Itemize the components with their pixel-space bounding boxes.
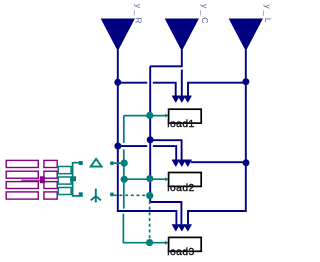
wire teal to load1 input — [124, 115, 166, 117]
star symbol bottom dot — [95, 200, 97, 202]
delta symbol — [91, 159, 102, 167]
wire teal to load2 input — [124, 178, 166, 180]
teal block 1 — [58, 167, 71, 174]
svg-text:load1: load1 — [167, 119, 194, 130]
wire teal control bus vertical middle segment — [123, 149, 125, 208]
teal block 3 — [58, 188, 71, 195]
small purple block 4 — [44, 192, 57, 199]
ramp block 4 — [6, 192, 38, 199]
wire node A down left rail to corner and right to load3 pin1 — [118, 82, 177, 224]
solid teal square on selector bus — [70, 176, 76, 181]
svg-text:y_L: y_L — [263, 4, 273, 24]
wire horizontal bus y=82.7 mid segment to load1 pin1 — [153, 83, 176, 96]
load1 plug arrows — [172, 96, 191, 102]
purple solid connector square — [40, 176, 45, 183]
node C junction dot — [242, 78, 249, 85]
wire horizontal bus y=82.7 left segment from node A — [118, 82, 148, 84]
wire teal control bus vertical upper segment — [123, 116, 125, 143]
wire node D to load2 pin2 — [150, 140, 181, 160]
input square of delta block — [79, 161, 83, 165]
thin purple wire into connector square — [21, 179, 40, 181]
teal junction dot on dashed wire — [146, 192, 153, 199]
teal junction dot on load3 wire — [146, 239, 153, 246]
node D junction dot — [147, 136, 154, 143]
svg-text:y_C: y_C — [200, 4, 210, 26]
wire horizontal bus y=82.7 right segment from node C to load1 pin3 — [188, 83, 246, 96]
load3 box — [169, 237, 202, 251]
input connector y_R — [102, 19, 135, 50]
teal junction dot on load1 wire — [146, 112, 153, 119]
node E junction dot — [243, 159, 250, 166]
teal block 2 — [58, 177, 71, 184]
wire mid rail x=150.2 from corner down to load3 pin2 — [150, 66, 181, 224]
arrow into load3 — [165, 241, 168, 245]
output square of delta block — [110, 161, 114, 165]
load3 plug arrows — [172, 225, 191, 231]
ramp block 1 — [6, 160, 38, 167]
node B junction dot — [114, 143, 121, 150]
wire dashed teal from star block output — [114, 194, 150, 196]
wire teal control bus vertical lower segment to load3 input — [123, 214, 165, 243]
load2 plug arrows — [172, 160, 191, 166]
selector left bus vertical with corners — [73, 163, 83, 196]
teal junction dot on bus at load2 branch — [121, 176, 128, 183]
wire load2 pin3 to node E — [191, 161, 246, 163]
small purple block 3 — [44, 182, 57, 189]
teal junction dot on bus at delta output — [121, 160, 128, 167]
arrow into load1 — [165, 114, 168, 118]
output square of star block — [110, 193, 114, 197]
star symbol — [91, 189, 101, 202]
svg-text:load2: load2 — [167, 183, 194, 194]
wire node B to load2 pin1 left segment — [118, 145, 148, 147]
ramp block 2 — [6, 171, 38, 178]
svg-text:load3: load3 — [167, 247, 194, 258]
load1 box — [169, 109, 202, 123]
input connector y_C — [166, 19, 199, 50]
input connector y_L — [230, 19, 263, 50]
small purple block 2 — [44, 171, 57, 178]
wire teal from delta block output to bus — [114, 162, 124, 164]
wire stem from input y_R down to node A — [117, 50, 119, 82]
node A junction dot — [114, 79, 121, 86]
wire stem from input y_C down to corner — [150, 50, 182, 66]
wire dashed teal vertical down to load3 node — [149, 195, 151, 242]
arrow into load2 — [165, 177, 168, 181]
input square of star block — [79, 192, 83, 196]
ramp block 3 — [6, 182, 38, 189]
wire load1 pin2 drop — [181, 70, 183, 96]
teal junction dot on load2 wire — [146, 175, 153, 182]
svg-text:y_R: y_R — [134, 4, 144, 26]
load2 box — [169, 173, 202, 187]
wire node B to load2 pin1 right segment — [153, 146, 176, 160]
wire stem from input y_L down right rail to load3 pin3 — [188, 50, 246, 224]
small purple block 1 — [44, 160, 57, 167]
